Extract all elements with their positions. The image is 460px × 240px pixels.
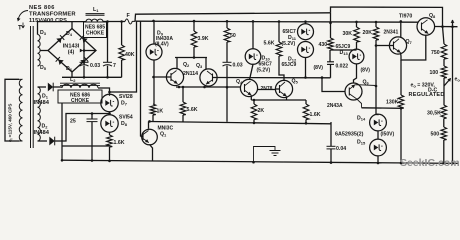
capacitor 0.022 (327, 61, 334, 63)
wire - bridge right vertex with arrow to filter (85, 50, 96, 52)
wire - common bottom rail (62, 160, 458, 163)
wire - L2 out to zener D7 (98, 88, 110, 96)
wire - D9 node to Q2 base (154, 76, 168, 78)
wire - bridge top vertex to AC rail (71, 22, 73, 29)
svg-text:(5.2V): (5.2V) (282, 41, 296, 47)
svg-text:2N43A: 2N43A (327, 103, 343, 109)
zener diode D7 SV128 (101, 94, 118, 111)
wire - Q4 to Q5 base (258, 89, 276, 91)
ground symbol (254, 147, 276, 163)
svg-text:(4): (4) (68, 50, 75, 56)
zener diode D11 65IC7 5.2V (298, 24, 314, 40)
svg-text:Q6: Q6 (363, 80, 370, 86)
svg-text:CHOKE: CHOKE (86, 31, 105, 37)
wire - mid common rail y121.5 from Q1 collector to 0.04 cap (150, 122, 332, 124)
zener diode D13 65JC9 8V (349, 49, 364, 64)
svg-text:D14: D14 (357, 116, 366, 122)
wire - B+ drop to zener D11 (304, 20, 307, 23)
label NES 685 CHOKE boxed (84, 22, 107, 38)
wire - 430 node to 30K-D13 junction (331, 49, 357, 51)
wire - sense line down to Q6 base (322, 78, 345, 92)
svg-text:D15: D15 (357, 140, 366, 146)
svg-text:20K: 20K (363, 30, 373, 36)
svg-text:TI970: TI970 (399, 14, 412, 20)
svg-text:D8: D8 (121, 121, 128, 127)
svg-text:IN484: IN484 (34, 130, 50, 136)
transformer T1 secondary 2 (lower) (38, 87, 41, 141)
wire - cap 25 bottom tie line (62, 145, 110, 147)
resistor 40K bleeder (121, 22, 123, 46)
wire - drop from choke box to tie line (61, 103, 63, 146)
svg-text:2K: 2K (258, 108, 265, 114)
wire - Q8 collector to output node (435, 26, 458, 28)
wire - Q7 emitter to Q8 emitter path (401, 35, 426, 60)
svg-text:25: 25 (70, 119, 76, 125)
wire - B+ rail (second rail) from fuse node to Q8 base (136, 21, 419, 22)
resistor 130K (398, 95, 404, 109)
svg-text:D3: D3 (40, 30, 47, 36)
svg-text:130K: 130K (386, 100, 399, 106)
wire - D9 to 1K (153, 60, 155, 104)
resistor 1.6K (Q5 emitter) (305, 100, 307, 104)
wire - D14 top from sense line (376, 113, 378, 115)
transistor Q2 2N114 (166, 68, 183, 85)
svg-text:30,5K: 30,5K (427, 111, 441, 117)
wire - 20K sense line down to D14 (375, 55, 377, 115)
capacitor 7 uf filter (103, 61, 112, 63)
svg-text:0.03: 0.03 (90, 63, 100, 69)
svg-text:TRANSFORMER: TRANSFORMER (29, 12, 76, 18)
label NES 686 CHOKE boxed (58, 90, 102, 103)
zener diode D12 65JC9 8V (298, 42, 314, 58)
choke L2 winding (60, 82, 100, 84)
wire - D2 up and over to D7-D8 junction (55, 114, 110, 142)
resistor 430 (330, 13, 332, 38)
capacitor 0.03 (second) (223, 61, 232, 63)
transistor Q5 2N78 (275, 80, 292, 97)
zener diode D14 (370, 114, 387, 131)
wire - D8 to 1.6K resistor (109, 132, 111, 135)
svg-text:L1: L1 (93, 7, 99, 13)
transformer T1 primary winding (19, 79, 22, 141)
wire - D12 to Q3 base line (305, 58, 307, 78)
diode D4 (bridge upper-right) (83, 38, 88, 43)
wire - secondary tap to D1 (38, 86, 47, 88)
svg-text:2N114: 2N114 (183, 71, 198, 77)
wire - drop through cap 7 (107, 22, 109, 63)
svg-text:30K: 30K (343, 31, 353, 37)
transistor Q8 TI970 (417, 18, 435, 36)
wire - Q1 emitter to bottom rail (150, 145, 153, 162)
transistor Q1 MNI3C (142, 129, 158, 145)
choke L1 winding (86, 19, 103, 21)
zener diode D10 65IC7 5.2V (245, 49, 261, 65)
zener diode D8 SV154 (101, 115, 118, 132)
svg-text:Q3: Q3 (196, 63, 203, 69)
wire - Q6 collector line to 130K (362, 107, 402, 110)
wire - B+ drop to zener D9 (153, 21, 155, 44)
resistor 5.6K collector load of Q5 (278, 22, 280, 43)
wire - L1 output to fuse (103, 21, 125, 23)
wire - D10 to Q4 collector (250, 64, 254, 79)
capacitor 25 uf (91, 114, 93, 120)
svg-text:NES 806: NES 806 (29, 5, 55, 11)
wire - D13 to Q6 collector (354, 64, 357, 83)
wire - Q1 collector to mid rail (148, 121, 150, 128)
transistor Q3 (mirrored) (200, 69, 217, 86)
svg-text:7: 7 (113, 63, 116, 69)
svg-text:(8.4V): (8.4V) (155, 42, 169, 48)
transistor Q7 2N341 (389, 37, 406, 54)
transistor Q6 2N43A (345, 83, 362, 100)
arrow from annotation to transformer (18, 11, 28, 21)
wire - D15 to bottom rail (377, 156, 379, 163)
svg-text:CHOKE: CHOKE (71, 98, 90, 104)
svg-text:(8V): (8V) (314, 65, 324, 71)
wire - collector rail of Q2 Q3 (175, 57, 207, 59)
svg-text:D7: D7 (121, 101, 128, 107)
svg-text:5.6K: 5.6K (187, 107, 198, 113)
svg-text:0.03: 0.03 (233, 63, 243, 69)
svg-text:Q5: Q5 (292, 79, 299, 85)
diode D6 (bridge lower-right) (80, 60, 85, 65)
svg-text:65JC9: 65JC9 (282, 62, 297, 68)
svg-text:115V/400 CPS: 115V/400 CPS (29, 18, 67, 24)
resistor 2K (253, 100, 255, 104)
wire - drop from B+ area to D7 top node (110, 21, 137, 92)
wire - Q7 base from sense line (376, 45, 389, 47)
fuse F (125, 19, 135, 24)
svg-text:D6: D6 (66, 66, 73, 72)
svg-text:D2: D2 (42, 124, 49, 130)
svg-text:3.9K: 3.9K (198, 36, 209, 42)
wire - Q4 emitter to emitter bus (250, 95, 252, 100)
svg-text:Q1: Q1 (160, 132, 167, 138)
svg-text:100: 100 (430, 70, 439, 76)
svg-text:D13: D13 (340, 50, 349, 56)
wire - Q7 emitter node down to 130K (400, 60, 402, 95)
zener diode D15 (370, 139, 387, 156)
svg-text:D4: D4 (66, 31, 73, 37)
svg-text:Q7: Q7 (406, 39, 413, 45)
svg-text:T: T (18, 26, 22, 32)
source ei input line (5, 79, 19, 141)
wire - drop from box to minus rail through cap 0.03 (83, 38, 85, 63)
wire - output line with terminal arrow (452, 27, 454, 164)
svg-text:430: 430 (319, 42, 328, 48)
svg-text:750: 750 (431, 50, 440, 56)
arrow eo tap (444, 79, 451, 87)
resistor 100 (443, 59, 445, 66)
svg-text:SVI28: SVI28 (119, 94, 133, 100)
wire - raw DC top rail from fuse to upper right (135, 13, 331, 22)
svg-text:2N341: 2N341 (384, 30, 399, 36)
svg-text:6A52935(2): 6A52935(2) (335, 132, 364, 138)
wire - B+ drop to D10 (252, 21, 254, 48)
transformer T1 secondary 1 (upper) (38, 35, 41, 67)
wire - Q7 collector to B+ rail (400, 21, 402, 37)
wire - emitter bus y100 (251, 99, 306, 101)
svg-text:1.6K: 1.6K (310, 112, 321, 118)
diode D5 (bridge lower-left) (58, 60, 63, 65)
svg-text:50: 50 (230, 33, 236, 39)
transformer T1 core (30, 26, 32, 148)
capacitor 0.03 input filter (80, 61, 89, 63)
svg-text:SVI54: SVI54 (119, 115, 133, 121)
svg-text:D5: D5 (40, 65, 47, 71)
resistor 1K (150, 104, 156, 115)
wire - bridge left vertex to secondary (40, 50, 48, 52)
wire - D14 to D15 (377, 131, 379, 139)
diode D3 (bridge upper-left) (56, 38, 61, 43)
capacitor 0.04 (330, 122, 332, 146)
svg-text:500: 500 (431, 132, 440, 138)
resistor 1.6K (zener bias) (107, 135, 113, 147)
resistor 3.9K (193, 21, 195, 31)
svg-text:1.6K: 1.6K (114, 140, 125, 146)
resistor 500 (441, 127, 447, 140)
wire - secondary bottom tap to D2 (38, 140, 48, 142)
wire - minus rail below bridge (y77) (62, 72, 122, 77)
resistor 50 (226, 21, 228, 28)
svg-text:(5.2V): (5.2V) (257, 68, 271, 74)
svg-text:IN484: IN484 (34, 100, 50, 106)
resistor 20K (375, 22, 377, 27)
choke L1 iron core lines (86, 13, 105, 15)
wire - Q3 base line to right (217, 77, 331, 79)
svg-text:(I50V): (I50V) (381, 132, 395, 138)
svg-text:D1: D1 (42, 94, 49, 100)
zener diode D9 IN430A 8.4V (146, 44, 162, 60)
svg-text:40K: 40K (125, 52, 135, 58)
svg-text:0.022: 0.022 (336, 64, 349, 70)
wire - Q5 emitter to emitter bus (286, 96, 288, 100)
svg-text:5.6K: 5.6K (264, 41, 275, 47)
transistor Q4 2N78 (240, 79, 257, 96)
wire - D7 to D8 (109, 112, 111, 115)
svg-text:Q8: Q8 (429, 13, 436, 19)
wire - AC rail from secondary top to bridge top and choke L1 (38, 22, 87, 35)
svg-text:SeekIC.com: SeekIC.com (400, 157, 460, 168)
svg-text:0.04: 0.04 (336, 146, 346, 152)
svg-text:eo: eo (455, 77, 460, 83)
wire - common emitter rail to Q4 base (176, 86, 241, 88)
wire - drop from B+ to Q1 base (140, 21, 142, 136)
svg-text:(8V): (8V) (361, 68, 371, 74)
resistor 750 (443, 27, 445, 44)
svg-text:Q4: Q4 (236, 79, 243, 85)
svg-text:REGULATED: REGULATED (409, 92, 445, 98)
wire - bridge diamond (48, 29, 96, 73)
resistor 5.6K emitter (182, 87, 184, 102)
svg-text:1K: 1K (157, 109, 164, 115)
resistor 30.5K (441, 105, 447, 119)
diode D1 IN484 (48, 83, 53, 92)
diode D2 IN484 (49, 137, 54, 146)
svg-text:Q2: Q2 (183, 62, 190, 68)
svg-text:L2: L2 (70, 77, 76, 83)
resistor 30K (356, 22, 358, 27)
